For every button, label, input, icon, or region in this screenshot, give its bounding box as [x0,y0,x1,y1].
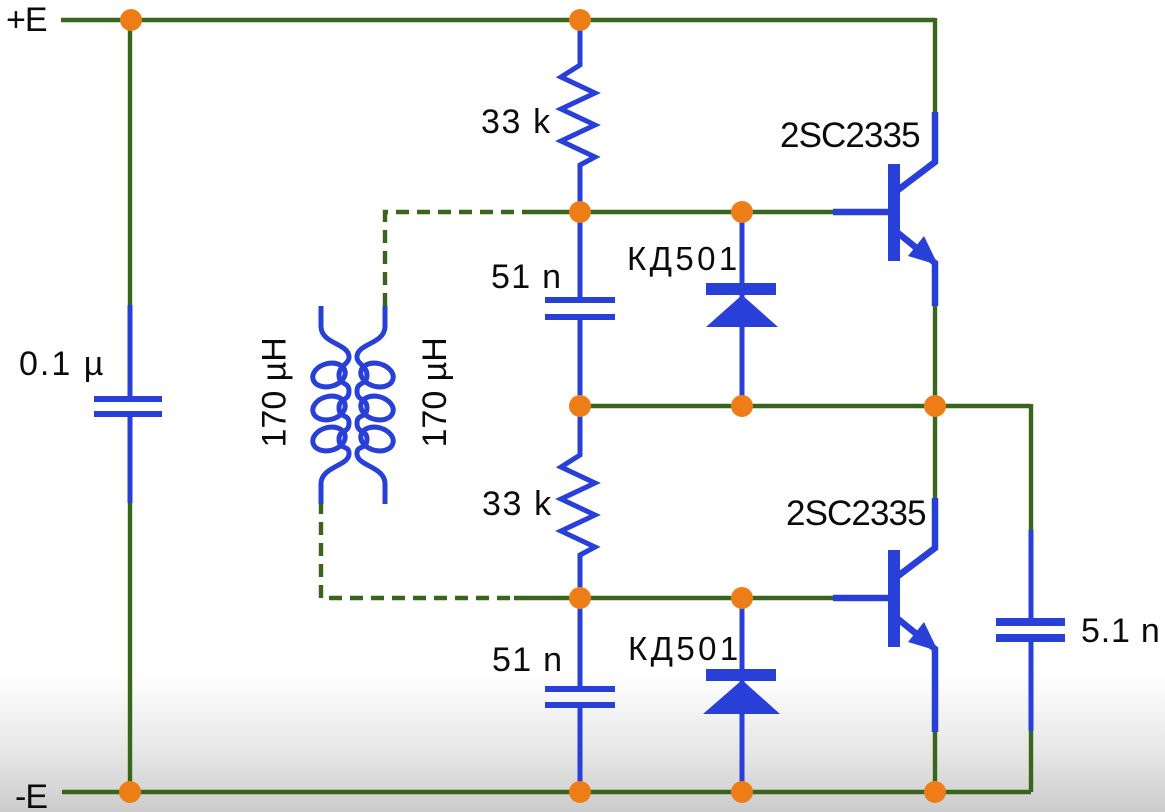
node mid / D1 bottom [731,395,753,417]
svg-text:170 µH: 170 µH [416,337,454,447]
node row1 / D1 [731,201,753,223]
wire node row 2 (base of Q2) [514,596,835,600]
capacitor C4 plates [996,618,1065,626]
transistor Q1 collector lead [898,112,935,190]
node top of R1 [569,9,591,31]
wire right column lower (C4 to -E) [1029,729,1033,792]
inductor L1 170uH (left winding) [310,306,349,504]
svg-text:-E: -E [15,778,47,812]
inductor L2 170uH (right winding) [357,306,396,504]
resistor R2 33k [561,404,595,600]
svg-text:0.1 µ: 0.1 µ [19,345,105,383]
diode D1 body [706,283,776,295]
wire bottom rail -E [62,790,1031,794]
diode D1 lead [740,210,745,408]
svg-text:2SC2335: 2SC2335 [780,116,920,155]
transistor Q1 emitter arrow [908,236,938,265]
svg-text:КД501: КД501 [627,240,741,277]
node row2 / R2-C3 [569,587,591,609]
transistor Q2 collector lead [898,498,935,576]
wire Q2 emitter to bottom rail [933,730,937,792]
node -E / C3 [569,781,591,803]
capacitor C1 0.1u leads [128,305,133,503]
wire node row 1 (base of Q1) [523,210,835,214]
svg-text:+E: +E [6,1,47,39]
node mid / C2-R2 [569,395,591,417]
wire dashed link T1 top to row 1 [385,212,523,306]
svg-text:170 µH: 170 µH [256,337,294,447]
capacitor C2 plates [545,297,615,303]
wire dashed link T1 bottom to row 2 [321,501,514,598]
wire node row mid (y=406) [580,404,1031,408]
capacitor C3 51n leads [578,596,583,793]
wire Q1 emitter to mid row [933,304,937,406]
capacitor C3 plates [545,686,615,692]
transistor Q2 base bar [888,550,900,647]
svg-text:2SC2335: 2SC2335 [786,494,926,533]
wire left rail lower (C1 to -E) [128,501,132,792]
diode D2 body [706,669,776,681]
svg-text:51 n: 51 n [492,641,563,679]
svg-text:5.1 n: 5.1 n [1081,612,1161,650]
wire right column upper (to C4) [1029,404,1033,532]
wire top rail +E [61,18,935,22]
diode D2 lead [740,596,745,793]
svg-text:51 n: 51 n [491,258,562,296]
transistor Q1 base bar [888,164,900,261]
transistor Q1 base lead [833,209,888,216]
node row2 / D2 [731,587,753,609]
node row1 / R1-C2 [569,201,591,223]
node -E / Q2 emitter [924,781,946,803]
transistor Q1 emitter lead [898,233,935,306]
capacitor C4 5.1n leads [1029,530,1034,731]
svg-text:КД501: КД501 [628,630,742,667]
wire top-right corner down to Q1 collector [933,18,937,114]
node -E / D2 [731,781,753,803]
capacitor C1 plates [94,396,162,402]
node +E junction [120,9,142,31]
transistor Q2 emitter arrow [908,622,938,651]
capacitor C2 51n leads [578,210,583,408]
resistor R1 33k [561,18,595,214]
node -E left [119,781,141,803]
node mid / Q1 emitter [924,395,946,417]
wire Q2 collector from mid row [933,406,937,500]
transistor Q2 emitter lead [898,619,935,732]
transistor Q2 base lead [833,595,888,602]
wire left rail upper (to C1) [128,20,132,307]
svg-text:33 k: 33 k [482,485,553,523]
svg-text:33 k: 33 k [481,103,552,141]
